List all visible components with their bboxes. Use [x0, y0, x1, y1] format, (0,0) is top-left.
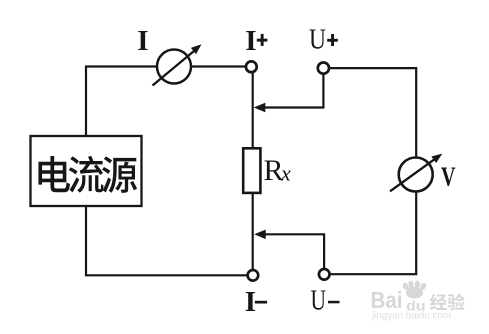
wire U+ right then down to voltmeter top [329, 68, 417, 157]
svg-text:I: I [245, 286, 256, 318]
wire U- up then left to center tap (potential lead) [264, 234, 324, 269]
wire resistor bottom to terminal I- [252, 193, 254, 271]
terminal U- [319, 269, 330, 280]
value label 电流源 [38, 156, 137, 193]
label I+ [245, 25, 267, 57]
terminal I+ [246, 61, 257, 72]
svg-text:jingyan.baidu.com: jingyan.baidu.com [371, 310, 451, 322]
label U+ [309, 24, 338, 55]
arrowhead on lower potential lead [254, 230, 266, 240]
wire I+ down to resistor top [252, 72, 254, 149]
svg-text:V: V [441, 161, 456, 191]
label U- [311, 286, 340, 317]
label Rx [264, 154, 292, 187]
resistor Rx [243, 148, 260, 193]
svg-text:x: x [280, 161, 291, 186]
ammeter A1 [153, 44, 202, 85]
terminal I- [248, 270, 259, 281]
wire box top to ammeter left [86, 67, 158, 137]
wire ammeter right to terminal I+ [191, 65, 247, 67]
label I- [245, 286, 267, 318]
voltmeter V1 [390, 154, 442, 192]
wire I- left then up to box bottom [86, 206, 248, 275]
svg-text:I: I [245, 25, 256, 57]
watermark Baidu logo [371, 281, 465, 322]
arrowhead on upper potential lead [254, 103, 265, 112]
svg-text:I: I [137, 25, 148, 57]
svg-text:U: U [311, 286, 327, 317]
wire voltmeter bottom down then left to U- [329, 192, 416, 275]
terminal U+ [318, 63, 329, 74]
svg-text:U: U [309, 24, 326, 55]
wire U+ down then left to center tap (potential lead) [264, 73, 323, 107]
current source box [31, 136, 142, 206]
